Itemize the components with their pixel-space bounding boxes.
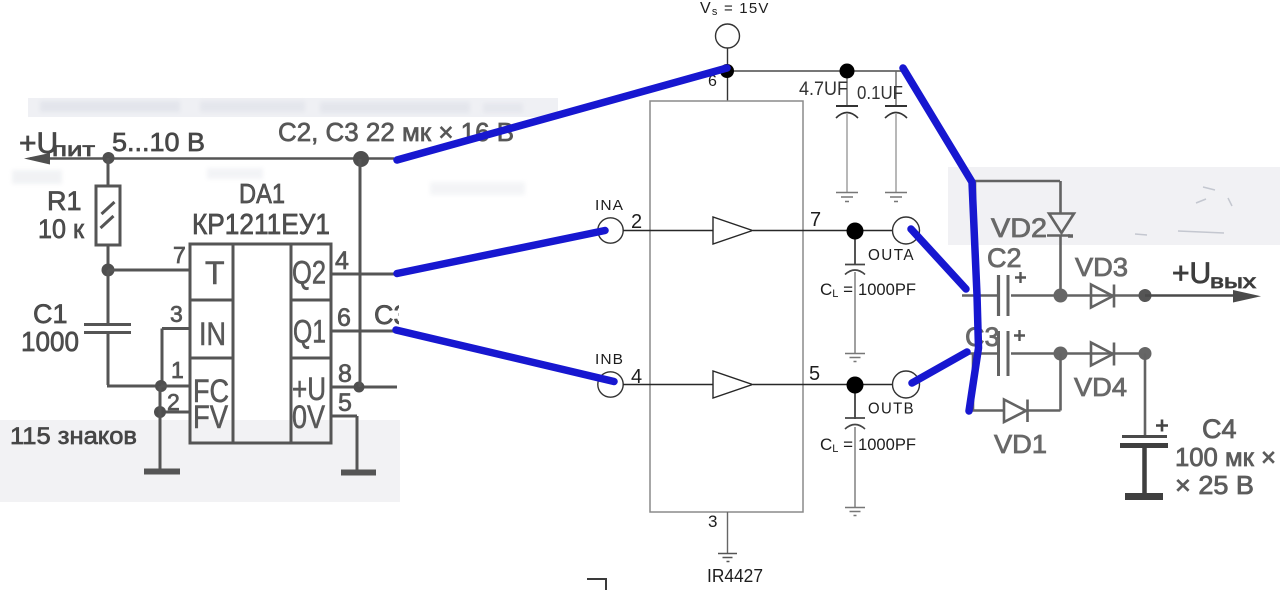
svg-text:1000PF: 1000PF — [858, 280, 916, 299]
svg-text:2: 2 — [631, 211, 642, 233]
svg-text:1: 1 — [171, 357, 184, 383]
svg-text:C2, C3 22 мк × 16 В: C2, C3 22 мк × 16 В — [278, 117, 514, 147]
svg-text:0V: 0V — [292, 399, 326, 435]
svg-text:пит: пит — [52, 140, 95, 161]
svg-text:Q2: Q2 — [292, 255, 326, 291]
svg-text:IR4427: IR4427 — [707, 566, 763, 586]
svg-text:OUTA: OUTA — [868, 247, 915, 264]
svg-text:0.1UF: 0.1UF — [857, 83, 903, 103]
svg-text:7: 7 — [810, 209, 821, 231]
svg-text:115 знаков: 115 знаков — [10, 423, 137, 450]
svg-text:IN: IN — [199, 316, 226, 352]
svg-text:3: 3 — [708, 512, 717, 531]
svg-text:5...10 В: 5...10 В — [112, 127, 205, 157]
svg-text:2: 2 — [167, 389, 180, 415]
svg-text:100 мк ×: 100 мк × — [1175, 442, 1276, 472]
svg-text:VD1: VD1 — [994, 429, 1047, 459]
svg-text:+U: +U — [1172, 257, 1211, 290]
svg-text:INA: INA — [595, 197, 624, 214]
svg-text:1000: 1000 — [21, 326, 79, 357]
svg-text:× 25 В: × 25 В — [1175, 470, 1254, 500]
svg-text:T: T — [205, 255, 225, 291]
svg-text:1000PF: 1000PF — [858, 435, 916, 454]
svg-text:VD2: VD2 — [991, 213, 1047, 243]
svg-text:VD3: VD3 — [1075, 252, 1128, 282]
svg-text:4: 4 — [335, 247, 349, 275]
svg-text:INB: INB — [595, 351, 624, 368]
svg-text:Vs = 15V: Vs = 15V — [700, 0, 770, 18]
svg-text:Q1: Q1 — [293, 314, 326, 350]
svg-text:КР1211ЕУ1: КР1211ЕУ1 — [192, 209, 330, 241]
svg-text:C4: C4 — [1202, 414, 1237, 444]
svg-text:7: 7 — [173, 242, 186, 268]
svg-text:FV: FV — [193, 399, 229, 435]
svg-text:C3: C3 — [965, 322, 1000, 352]
svg-text:5: 5 — [338, 389, 352, 417]
svg-text:6: 6 — [337, 304, 351, 332]
svg-text:8: 8 — [338, 360, 352, 388]
svg-text:DA1: DA1 — [239, 178, 285, 209]
svg-text:вых: вых — [1210, 272, 1257, 293]
svg-text:C1: C1 — [33, 299, 68, 329]
svg-text:4.7UF: 4.7UF — [799, 79, 848, 100]
svg-text:5: 5 — [809, 363, 820, 385]
svg-text:OUTB: OUTB — [868, 401, 915, 418]
svg-text:4: 4 — [631, 366, 642, 388]
svg-text:VD4: VD4 — [1074, 372, 1127, 402]
svg-text:3: 3 — [170, 301, 183, 327]
svg-text:10 к: 10 к — [38, 214, 84, 244]
svg-text:C2: C2 — [987, 243, 1022, 273]
svg-text:R1: R1 — [47, 186, 82, 216]
